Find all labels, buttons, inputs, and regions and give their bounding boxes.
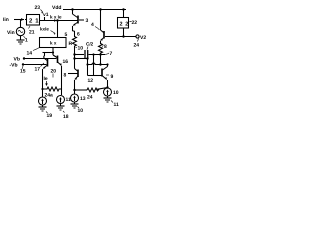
svg-text:C/2: C/2 (86, 42, 94, 47)
label C/2 (86, 42, 94, 50)
svg-text:7: 7 (110, 51, 113, 57)
svg-text:17: 17 (35, 67, 41, 73)
wire source13 to ground (74, 102, 76, 104)
wire Vdd rail (63, 9, 126, 11)
current source 10 (104, 88, 112, 96)
label -Vb (10, 63, 18, 69)
transistor T16 (53, 55, 62, 95)
ground 18 (57, 106, 65, 110)
wire stub node below 7 (73, 57, 88, 59)
label 3 (86, 18, 89, 24)
label 10 lower (78, 107, 84, 115)
wire source10 to ground (107, 96, 109, 98)
label 24 resistor (87, 95, 93, 101)
svg-text:8: 8 (64, 73, 67, 79)
wire box22 to V2 node (122, 28, 124, 38)
svg-text:20: 20 (51, 69, 57, 75)
svg-text:2 2: 2 2 (120, 22, 129, 28)
label 8 of T8 (64, 73, 67, 79)
wire box21 output to Q3 base (40, 20, 78, 22)
svg-text:6: 6 (77, 32, 80, 38)
label 10 (113, 90, 119, 96)
label 23 (35, 5, 44, 14)
ground 10 (71, 104, 79, 108)
label 13 (80, 96, 86, 102)
label 20 (51, 69, 57, 78)
junction T8 emitter resistor 24 (73, 89, 75, 91)
wire Vb to T16 base (23, 57, 57, 59)
wire resistor8 column joins (100, 55, 102, 65)
svg-text:k x Ie: k x Ie (50, 15, 62, 20)
svg-text:v1: v1 (43, 12, 49, 18)
wire source19 to ground (42, 105, 44, 107)
ground below Vin (17, 40, 25, 44)
junction rail Q3 (71, 8, 73, 10)
svg-text:Vdd: Vdd (52, 5, 61, 11)
svg-text:23: 23 (35, 5, 41, 11)
resistor 8 (99, 44, 103, 55)
svg-text:Ie: Ie (44, 76, 48, 82)
terminal V2 (136, 35, 146, 41)
label 21 (29, 26, 35, 36)
wire R bottom down to T8 (74, 48, 76, 69)
svg-text:R: R (69, 41, 73, 47)
label 16 (63, 59, 69, 65)
capacitor C/2 (85, 50, 88, 59)
label 11 (66, 97, 72, 103)
label 10 node (76, 46, 84, 52)
label 24 (134, 39, 140, 49)
svg-text:k x: k x (50, 41, 57, 46)
svg-text:Vin: Vin (7, 30, 15, 36)
label 4 (91, 22, 100, 30)
label 24a (45, 93, 54, 99)
svg-text:Iin: Iin (3, 17, 9, 23)
label 1 (24, 36, 29, 44)
label 22 (130, 20, 138, 26)
junction rail box22 (122, 8, 124, 10)
current source 13 (71, 94, 79, 102)
wire source to ground (20, 36, 22, 40)
label Vdd (52, 5, 61, 11)
wire down into box 14 (57, 21, 59, 38)
transistor T17 (43, 59, 48, 98)
svg-text:4: 4 (91, 22, 94, 28)
svg-text:V2: V2 (140, 35, 146, 41)
wire T17 collector with hop over Vb (43, 53, 46, 59)
wire node 7 horizontal (73, 53, 105, 55)
label Vb (14, 57, 20, 63)
box 21 divider (27, 15, 40, 26)
transistor T8 (68, 69, 78, 95)
svg-text:10: 10 (78, 108, 84, 114)
svg-text:3: 3 (86, 18, 89, 24)
svg-text:21: 21 (29, 30, 35, 36)
wire node down from 7 to T9 feed (93, 55, 95, 76)
svg-text:22: 22 (132, 20, 138, 26)
transistor Q3 (73, 10, 85, 32)
wire horizontal to T9 collector with hop (86, 63, 108, 66)
svg-text:1: 1 (25, 38, 28, 44)
svg-text:14: 14 (27, 51, 33, 57)
current source 11 (57, 96, 65, 104)
label 5 (65, 32, 68, 38)
svg-text:24a: 24a (45, 93, 54, 99)
ground 11 (104, 98, 112, 102)
svg-text:19: 19 (47, 113, 53, 119)
svg-text:9: 9 (111, 74, 114, 80)
voltage source Vin (1) (16, 27, 24, 35)
svg-text:15: 15 (20, 69, 26, 75)
wire input node down to source (20, 20, 22, 27)
wire 24 resistor row (75, 86, 109, 92)
svg-text:2 1: 2 1 (29, 18, 39, 25)
label 17 (35, 63, 45, 73)
resistor 24a emitter degeneration (41, 87, 61, 91)
wire -Vb to T17 base (22, 63, 47, 65)
label 7 (105, 51, 113, 57)
label Iin (3, 17, 9, 23)
label R (69, 41, 73, 47)
label Vin (7, 30, 15, 36)
ground 19 (39, 107, 47, 111)
svg-text:kxIe: kxIe (40, 27, 49, 32)
wire rail to box22 (123, 10, 125, 18)
wire cap node down (87, 59, 89, 76)
label 8 (102, 44, 107, 50)
label Ie with arrow (44, 76, 48, 86)
svg-text:16: 16 (63, 59, 69, 65)
node v1 (43, 12, 49, 21)
label 9 (106, 74, 114, 80)
box 14 (40, 38, 67, 48)
label k x Ie upper with current arrow (50, 15, 62, 22)
label 6 (77, 32, 80, 38)
wire Q3 emitter to resistor R column (73, 30, 75, 32)
svg-text:8: 8 (104, 44, 107, 50)
label 19 (46, 112, 52, 120)
label 12 (88, 78, 94, 84)
wire source11 to ground (60, 104, 62, 107)
box 22 (118, 18, 129, 29)
label 15 (20, 66, 26, 75)
resistor R (73, 31, 77, 48)
svg-text:12: 12 (88, 78, 94, 84)
svg-text:13: 13 (80, 96, 86, 102)
svg-text:11: 11 (114, 102, 120, 108)
svg-text:24: 24 (134, 43, 140, 49)
junction into box 14 (56, 19, 58, 21)
svg-text:24: 24 (87, 95, 93, 101)
current source 19 (39, 97, 47, 105)
label 18 (63, 111, 69, 120)
junction rail Q4 (99, 8, 101, 10)
wire collectors to box 14 bottom pin (43, 48, 55, 56)
svg-text:-Vb: -Vb (10, 63, 18, 69)
label 14 (27, 48, 40, 57)
label 11 lower (111, 101, 119, 109)
svg-text:10: 10 (113, 90, 119, 96)
label kxIe lower (40, 27, 56, 35)
transistor T9 (88, 65, 108, 89)
wire Iin input arrow (14, 18, 27, 21)
transistor Q4 (101, 10, 136, 45)
svg-text:18: 18 (63, 114, 69, 120)
svg-text:10: 10 (78, 46, 84, 52)
